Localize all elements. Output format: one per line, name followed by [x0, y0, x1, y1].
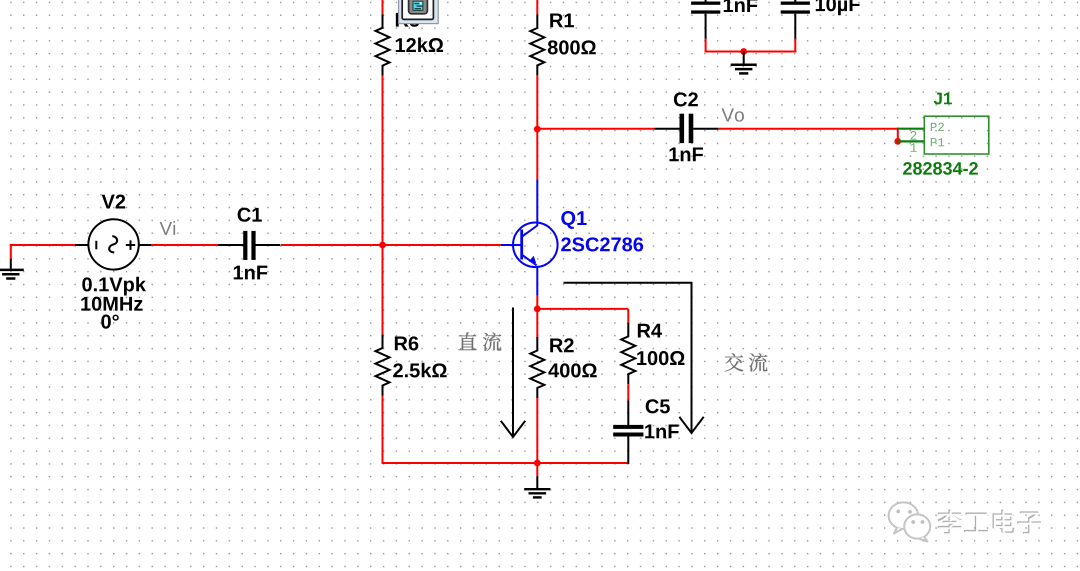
- wire collector-red: [536, 129, 538, 179]
- resistor R2: [530, 337, 596, 398]
- watermark text 李工电子: [937, 510, 1042, 536]
- wire base-red: [384, 244, 502, 246]
- wire R5-top: [382, 0, 384, 14]
- wire input-corner: [10, 244, 75, 259]
- wire R1-to-collector-node: [536, 75, 538, 130]
- node bypass-junction: [740, 48, 747, 55]
- wire emitter-red: [536, 296, 538, 309]
- wire emitter-blue: [536, 267, 538, 296]
- annotation DC text 直流: [458, 332, 501, 351]
- capacitor C4 bypass 10uF: [781, 0, 860, 40]
- resistor R5: [376, 13, 444, 76]
- transistor Q1: [501, 211, 643, 267]
- wire R1-top: [536, 0, 538, 15]
- ground GND-left: [0, 258, 24, 279]
- wire collector-to-C2: [537, 128, 679, 130]
- connector J1: [898, 93, 989, 175]
- ground GND-bottom: [524, 463, 550, 497]
- annotation AC text 交流: [725, 353, 768, 372]
- resistor R4: [621, 323, 684, 384]
- wire bottom-rail: [382, 462, 630, 464]
- wire V2-to-C1: [151, 244, 218, 246]
- node Vi: [160, 221, 176, 235]
- wire collector-blue: [536, 179, 538, 226]
- capacitor C2: [669, 92, 718, 161]
- wire emitter-to-R4: [537, 309, 628, 324]
- annotation AC arrow: [564, 283, 704, 433]
- node Vo: [721, 108, 743, 121]
- node J1-junction: [894, 138, 901, 145]
- capacitor C3 bypass 1nF: [691, 0, 757, 40]
- wire C2-to-J1: [719, 128, 899, 142]
- wire C1-to-base-node: [281, 244, 384, 246]
- node emitter-junction: [534, 306, 541, 313]
- in-use-list icon button: [399, 0, 439, 24]
- annotation DC arrow: [501, 308, 525, 438]
- capacitor C5: [613, 399, 679, 438]
- resistor R1: [530, 13, 595, 75]
- node collector-junction: [534, 126, 541, 133]
- wire R5-to-R6: [382, 76, 384, 335]
- source V2: [75, 195, 152, 329]
- wire R2-to-bottom: [536, 398, 538, 464]
- node base-junction: [379, 242, 386, 249]
- wire emitter-to-R2: [536, 309, 538, 338]
- resistor R6: [376, 335, 447, 396]
- wire R6-to-bottom: [382, 396, 384, 465]
- watermark wechat-logo: [889, 502, 931, 541]
- wire bypass-ground-bus: [705, 39, 797, 53]
- wire C5-to-bottom: [627, 436, 629, 464]
- ground GND-top: [731, 52, 757, 74]
- node ground-junction: [534, 460, 541, 467]
- capacitor C1: [218, 208, 280, 280]
- wire R4-to-C5: [627, 384, 629, 425]
